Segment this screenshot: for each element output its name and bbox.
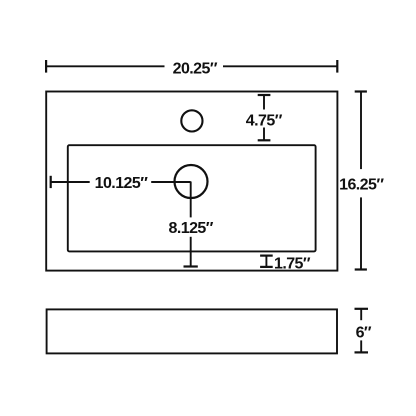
dimension 4.75in: bottom tick bar: [258, 139, 271, 141]
drain hole circle: [175, 165, 208, 198]
dimension 4.75in: lower line segment: [263, 128, 265, 141]
sink top view outer outline: [46, 92, 337, 271]
svg-text:8.125″: 8.125″: [168, 220, 213, 237]
dimension 16.25in: lower line segment: [360, 197, 362, 269]
svg-text:16.25″: 16.25″: [339, 177, 384, 194]
svg-text:1.75″: 1.75″: [274, 255, 311, 272]
dimension 6in: lower line segment: [360, 340, 362, 352]
faucet hole circle: [181, 110, 202, 131]
dimension 4.75in faucet hole setback: top tick bar: [258, 94, 271, 96]
basin inner rectangle: [68, 145, 316, 251]
dimension 8.125in: lower line segment: [190, 237, 192, 266]
dimension 10.125in: line right segment to drain center: [151, 181, 191, 183]
dimension 10.125in: line left segment: [51, 181, 90, 183]
svg-text:10.125″: 10.125″: [95, 175, 149, 192]
dimension 1.75in: bottom tick bar of I-beam: [260, 266, 273, 268]
dimension 1.75in rim: top tick bar of I-beam: [260, 255, 273, 257]
svg-text:4.75″: 4.75″: [246, 113, 283, 130]
dimension 8.125in drain setback: upper line segment: [190, 182, 192, 218]
dimension 6in: bottom tick bar: [355, 351, 369, 353]
dimension 16.25in: upper line segment: [360, 92, 362, 170]
dimension 20.25in overall width: left end tick: [45, 60, 47, 73]
dimension 16.25in: bottom tick bar: [355, 268, 367, 270]
svg-text:6″: 6″: [356, 324, 372, 341]
dimension 20.25in: line right segment: [223, 65, 337, 67]
dimension 6in: upper line segment: [360, 309, 362, 320]
svg-text:20.25″: 20.25″: [173, 61, 218, 78]
dimension 6in height: top tick bar: [355, 308, 369, 310]
dimension 20.25in: line left segment: [46, 65, 164, 67]
sink side view outline: [47, 309, 337, 353]
dimension 4.75in: upper line segment: [263, 95, 265, 110]
dimension 8.125in: bottom tick bar: [184, 265, 198, 267]
dimension 1.75in: vertical line of I-beam: [265, 256, 267, 267]
dimension 20.25in: right end tick: [336, 60, 338, 73]
dimension 16.25in overall depth: top tick bar: [355, 90, 367, 92]
dimension 10.125in drain offset: left end tick: [50, 176, 52, 188]
